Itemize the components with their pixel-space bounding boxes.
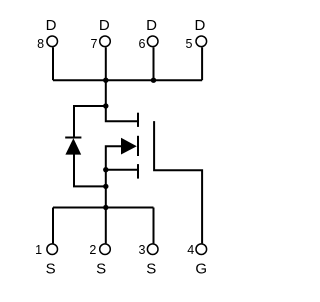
- svg-text:7: 7: [91, 37, 98, 51]
- svg-text:D: D: [194, 17, 205, 34]
- svg-text:D: D: [46, 17, 57, 34]
- svg-text:6: 6: [139, 37, 146, 51]
- svg-text:S: S: [146, 260, 156, 277]
- svg-text:D: D: [99, 17, 110, 34]
- svg-text:4: 4: [187, 243, 194, 257]
- svg-text:1: 1: [35, 243, 42, 257]
- svg-text:2: 2: [89, 243, 96, 257]
- svg-text:3: 3: [139, 243, 146, 257]
- svg-text:5: 5: [186, 37, 193, 51]
- svg-text:G: G: [195, 260, 207, 277]
- svg-text:8: 8: [37, 37, 44, 51]
- svg-text:D: D: [146, 17, 157, 34]
- svg-text:S: S: [46, 260, 56, 277]
- svg-text:S: S: [96, 260, 106, 277]
